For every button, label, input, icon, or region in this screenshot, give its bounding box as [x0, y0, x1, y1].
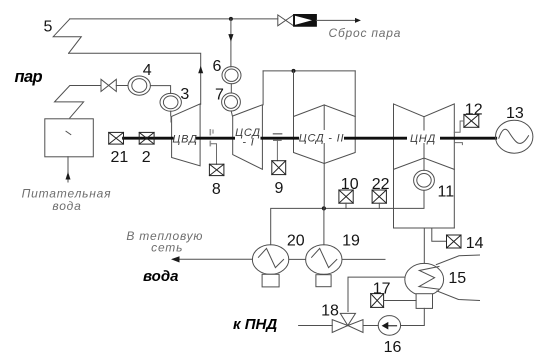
svg-text:3: 3: [180, 86, 189, 103]
svg-text:16: 16: [384, 339, 402, 356]
node dot reheat branch: [292, 69, 296, 73]
valve 6 inner: [225, 69, 238, 81]
flow meter 4 outer: [128, 76, 150, 95]
svg-text:7: 7: [215, 87, 224, 104]
wire box 12 to shaft seal: [454, 121, 464, 132]
heater 19 coil: [312, 248, 337, 267]
svg-text:19: 19: [342, 233, 360, 250]
heater 20 drain box: [262, 274, 279, 287]
boiler B1 box: [45, 119, 94, 157]
wire valve top to heater 15: [348, 277, 405, 311]
wire hot reheat down to valves 6,7: [230, 19, 232, 67]
steam discharge valve V2: [278, 15, 294, 26]
wire meter4 to meter3: [150, 86, 170, 94]
sensor box 9: [272, 161, 286, 175]
sensor box 12: [464, 114, 479, 127]
svg-text:к ПНД: к ПНД: [233, 316, 277, 333]
sensor box 8: [209, 164, 224, 175]
svg-text:ЦСД - II: ЦСД - II: [299, 132, 345, 144]
turbine LP cylinder ЦНД: [394, 104, 455, 169]
svg-text:17: 17: [373, 280, 391, 297]
coupling marks HP shaft end: [210, 130, 213, 146]
arrow steam discharge: [355, 18, 361, 23]
wire ЦНД centre to gauge 11: [423, 158, 425, 170]
centre line ЦСД-II: [323, 105, 325, 164]
heater 15 coil: [419, 267, 439, 290]
svg-text:22: 22: [372, 176, 390, 193]
pump 16 arrow: [388, 325, 396, 327]
turbine MP cylinder ЦСД-I: [233, 105, 263, 170]
silencer (Сброс пара): [294, 15, 317, 27]
turbine MP cylinder ЦСД-II: [294, 105, 356, 164]
sensor box 22: [372, 190, 386, 203]
extraction tap dashes near ЦСД-I exit: [274, 133, 282, 135]
valve V1 (boiler outlet): [101, 79, 116, 91]
svg-text:11: 11: [437, 184, 454, 201]
LP exhaust duct left wall: [393, 169, 395, 228]
line-break symbol 5: [53, 19, 81, 53]
reheat loop top line: [263, 70, 355, 72]
generator 13: [496, 120, 533, 153]
boiler steam line break symbol: [55, 86, 102, 118]
valve 7 outer: [222, 93, 241, 111]
network heater 19: [306, 245, 342, 275]
condensate line drain box to pump: [401, 308, 425, 325]
sensor box 10: [339, 190, 353, 203]
wire feed water inlet: [67, 157, 69, 182]
svg-text:2: 2: [142, 149, 151, 166]
wire valve to к ПНД: [299, 325, 333, 327]
wire 7 to MP1 inlet: [231, 111, 232, 116]
valve 6 outer: [222, 67, 241, 84]
label ЦСД - II: [299, 130, 345, 144]
heater 20 coil: [258, 248, 283, 267]
wire tap down to box 9: [276, 140, 278, 160]
svg-text:ЦНД: ЦНД: [410, 133, 436, 145]
heating steam header: gauge11 down and across to heaters: [271, 191, 424, 245]
flow meter 4 inner: [132, 79, 147, 93]
svg-text:4: 4: [143, 62, 152, 79]
svg-text:9: 9: [274, 180, 283, 197]
wire ЦСД-II exhaust down to header: [323, 164, 325, 209]
seal dash below shaft: [455, 143, 463, 145]
network heater 20: [252, 245, 288, 275]
pipe network out top: [436, 255, 479, 265]
stub box22: [378, 203, 380, 208]
svg-text:18: 18: [321, 303, 339, 320]
LP exhaust duct bottom: [394, 227, 455, 229]
svg-text:5: 5: [43, 19, 52, 36]
heat exchanger 15: [405, 263, 444, 295]
stub box10: [345, 203, 347, 208]
heater 19 drain box: [316, 275, 331, 287]
svg-text:ЦВД: ЦВД: [172, 134, 197, 146]
flow meter 3 inner: [163, 96, 178, 109]
wire duct to heater 15: [423, 228, 425, 263]
svg-text:6: 6: [213, 58, 222, 75]
svg-text:Сброс пара: Сброс пара: [329, 26, 402, 40]
wire silencer to arrow: [316, 19, 356, 21]
wire cold reheat line y=53: [69, 53, 201, 104]
label ЦСД -I: [235, 127, 261, 149]
heater 15 drain box: [416, 294, 432, 309]
sensor box 17: [371, 294, 384, 308]
flow meter 3 outer: [160, 93, 181, 111]
svg-text:21: 21: [111, 149, 129, 166]
pipe network in bottom: [437, 291, 480, 301]
svg-text:14: 14: [466, 235, 484, 252]
svg-text:12: 12: [465, 102, 483, 119]
node junction dot top line: [229, 17, 233, 21]
wire between 6 and 7: [230, 84, 232, 93]
node dot header junction: [322, 206, 326, 210]
svg-text:8: 8: [212, 181, 221, 198]
wire header down to heater 19: [323, 208, 325, 244]
svg-text:20: 20: [287, 233, 305, 250]
reheat loop to ЦСД-II: left riser: [262, 71, 264, 105]
centre line ЦНД: [423, 117, 425, 158]
stub steam admission into HP: [170, 116, 172, 122]
arrow up on cold reheat vertical: [198, 66, 203, 74]
wire meter3 to HP turbine inlet: [170, 111, 172, 116]
svg-text:15: 15: [448, 270, 466, 287]
turbine HP cylinder ЦВД: [172, 104, 201, 166]
three-way valve 18: [332, 320, 348, 333]
gauge 11 inner: [417, 174, 431, 188]
svg-text:вода: вода: [52, 199, 81, 213]
svg-text:пар: пар: [15, 68, 43, 86]
arrow to heat network: [171, 256, 180, 262]
wire main steam top line: [70, 18, 278, 20]
wire between heaters: [289, 258, 306, 260]
arrow down on reheat line: [228, 34, 233, 42]
wire heater19 right: [342, 258, 385, 260]
wire box 17 to drain box: [384, 300, 417, 302]
shaft main (thick): [124, 137, 496, 140]
wire seal steam to box 8: [211, 144, 217, 164]
svg-text:13: 13: [506, 105, 524, 122]
svg-text:сеть: сеть: [151, 240, 183, 254]
arrow feed water up: [66, 172, 71, 180]
gauge 11 outer: [414, 170, 435, 190]
wire valve to meter 4: [116, 85, 128, 87]
wire branch into ЦСД-II left inlet: [293, 71, 295, 117]
valve 7 inner: [225, 96, 238, 109]
pump 16: [378, 316, 400, 336]
sensor box 2: [139, 132, 154, 144]
boiler inner tick: [66, 131, 71, 134]
label ЦНД: [407, 131, 440, 146]
label ЦВД: [172, 134, 197, 146]
sensor box 21: [109, 132, 124, 144]
generator sine: [499, 129, 529, 143]
svg-text:10: 10: [341, 176, 359, 193]
svg-text:- I: - I: [242, 137, 254, 149]
wire tap to box 14: [432, 228, 447, 241]
wire pump to valve 18: [363, 325, 378, 327]
wire right leg into ЦСД-II right inlet: [354, 71, 356, 117]
LP exhaust duct right wall: [453, 169, 455, 228]
sensor box 14: [447, 235, 462, 248]
network water line with arrow: [173, 258, 252, 260]
svg-text:вода: вода: [143, 268, 178, 285]
